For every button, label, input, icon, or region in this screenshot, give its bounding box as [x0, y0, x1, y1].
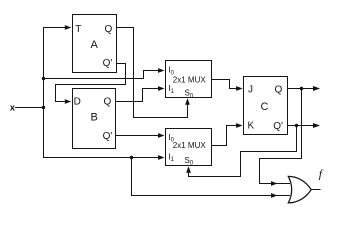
arrowhead C Q output — [313, 86, 320, 91]
arrowhead into C K — [236, 123, 243, 128]
wire x to U2 I1 — [44, 157, 158, 159]
arrowhead into U1 I0 — [158, 68, 165, 73]
wire OR output — [311, 189, 320, 191]
flip-flop C — [244, 77, 288, 135]
svg-text:D: D — [74, 97, 81, 108]
svg-text:Q': Q' — [273, 121, 283, 132]
wire x input — [16, 107, 45, 109]
svg-text:Q: Q — [275, 84, 283, 95]
wire C Q output — [288, 88, 314, 90]
arrowhead into U1 S0 — [185, 98, 190, 105]
svg-text:J: J — [248, 84, 253, 95]
flip-flop B — [73, 89, 116, 149]
flip-flop A — [73, 15, 117, 73]
wire U2 out to C K — [212, 126, 237, 146]
wire C Q' output — [288, 125, 314, 127]
arrowhead into U2 S0 — [186, 166, 191, 173]
arrowhead into A T — [65, 25, 72, 30]
svg-text:2x1 MUX: 2x1 MUX — [173, 141, 207, 150]
junction C Q branch — [300, 87, 303, 90]
junction OR lower branch — [130, 156, 133, 159]
wire C Q branch to OR upper input — [260, 89, 302, 184]
or-gate G1 — [288, 176, 311, 203]
svg-text:Q: Q — [105, 24, 113, 35]
2x1 MUX U1 — [166, 61, 212, 98]
arrowhead OR upper input — [271, 181, 278, 186]
svg-text:C: C — [261, 101, 269, 113]
wire U1 out to C J — [212, 80, 237, 89]
svg-text:Q': Q' — [103, 131, 113, 142]
svg-text:B: B — [91, 111, 98, 123]
arrowhead C Q' output — [313, 123, 320, 128]
wire C Q' branch to U2 S0 — [189, 126, 297, 177]
wire B Q to U1 I1 — [116, 89, 158, 102]
wire A Q' to B D — [56, 64, 126, 102]
svg-text:Q': Q' — [103, 58, 113, 69]
svg-text:T: T — [75, 24, 81, 35]
svg-text:K: K — [248, 121, 255, 132]
svg-text:2x1 MUX: 2x1 MUX — [173, 76, 207, 85]
arrowhead OR lower input — [271, 193, 278, 198]
2x1 MUX U2 — [166, 129, 212, 166]
arrowhead into U2 I0 — [158, 133, 165, 138]
junction x split — [42, 106, 45, 109]
junction C Q' branch — [295, 124, 298, 127]
svg-text:f: f — [319, 167, 324, 181]
wire B Q' to U2 I0 — [116, 135, 158, 137]
wire x vertical bus with T feed — [44, 28, 65, 158]
wire x branch to OR lower input — [132, 158, 290, 196]
svg-text:x: x — [10, 103, 16, 114]
wire long feed to U1 I0 — [44, 71, 158, 79]
arrowhead into U2 I1 — [158, 155, 165, 160]
arrowhead into C J — [236, 86, 243, 91]
wire A Q to U1 S0 — [117, 28, 188, 118]
svg-text:A: A — [91, 39, 99, 51]
junction T branch — [42, 77, 45, 80]
svg-text:Q: Q — [104, 97, 112, 108]
arrowhead into U1 I1 — [158, 86, 165, 91]
arrowhead into B D — [65, 99, 72, 104]
